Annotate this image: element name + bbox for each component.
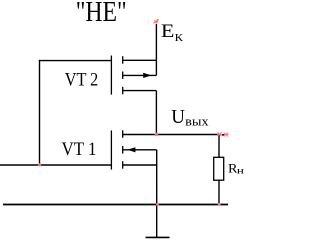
svg-text:н: н [237,167,244,177]
VT2 body arrow (points right) [143,73,151,78]
node input junction (pink) [38,163,41,166]
body stub [123,74,157,76]
channel tick source [122,161,124,169]
VT1 body arrow (points left) [127,147,135,152]
node output corner marker (pink) [217,132,222,136]
ground [146,236,170,238]
channel tick source [122,87,124,95]
body stub [123,149,157,151]
node EK marker (pink) [154,19,159,24]
node small black dot [222,134,224,136]
wire EK supply vertical [155,24,157,75]
node marker right (pink) [223,133,228,137]
channel tick drain [122,56,124,64]
transistor VT2 (p-channel MOSFET) [111,56,156,95]
wire VT2 source to VT1 drain [155,91,157,135]
svg-text:вых: вых [185,115,209,129]
wire ground rail [3,204,228,206]
drain stub [123,59,157,61]
node rail-resistor junction (pink) [218,203,221,206]
svg-text:"НЕ": "НЕ" [76,0,127,28]
gate electrode [110,56,112,95]
source stub [123,164,157,166]
resistor Rn [214,157,224,180]
source stub [123,90,157,92]
channel tick body [122,72,124,80]
wire input [0,164,112,166]
node rail-ground junction (pink) [156,203,159,206]
svg-text:К: К [175,33,184,44]
svg-text:U: U [171,107,185,128]
channel tick body [122,146,124,154]
wire resistor bottom [218,180,220,204]
svg-text:VT 2: VT 2 [65,71,99,91]
wire VT1 source down to ground symbol [156,150,158,238]
gate electrode [110,130,112,169]
transistor VT1 (n-channel MOSFET) [111,130,156,169]
svg-text:VT 1: VT 1 [62,140,97,160]
wire VT2 gate horizontal [39,60,112,62]
svg-text:E: E [161,21,175,42]
wire gate feedback vertical [39,60,41,165]
channel tick drain [122,130,124,138]
wire output node horizontal [123,134,219,136]
node output junction (pink) [155,133,159,137]
wire resistor top [218,135,220,158]
